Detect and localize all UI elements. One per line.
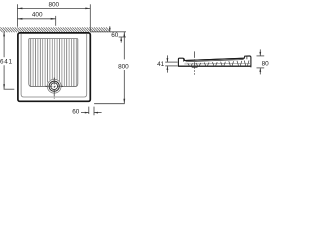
dim 800 top: extension line right — [89, 4, 91, 31]
dim 60 top right: down arrow above wall line — [109, 26, 111, 31]
wall hatching band above tray — [0, 27, 111, 32]
dim 800 top: extension line left — [16, 4, 18, 27]
drain centerline horizontal — [45, 85, 63, 87]
top surface line — [184, 58, 244, 60]
dim 641 left: dimension line lower part — [3, 65, 5, 89]
drain outer circle — [47, 79, 61, 93]
dim 60 bottom: left line with right arrow — [81, 112, 89, 114]
tray outer square (top view) — [18, 33, 90, 101]
dim 60 top right: lower extension line — [119, 36, 126, 38]
dim 41: lower extension line — [165, 65, 177, 67]
dim 60 bottom: right line with left arrow — [94, 112, 102, 114]
dim 800 right: dimension line upper part — [123, 32, 125, 60]
dim 800 top: dimension line — [17, 7, 90, 9]
body bottom line — [184, 63, 251, 65]
drain: white mask — [47, 79, 61, 93]
drain middle circle — [49, 81, 59, 91]
dim 60 top right: up arrow below inner line — [120, 37, 122, 42]
drain boss under profile — [192, 66, 198, 67]
dim 60 bottom: extension tick B — [93, 107, 95, 116]
svg-text:800: 800 — [118, 64, 129, 71]
dim 641 left: bottom extension tick — [4, 88, 15, 90]
wall face line continuation to the right — [90, 31, 126, 33]
left lip inner line — [183, 59, 185, 62]
dim 641 left: down arrow — [3, 84, 5, 89]
dim 80: upper extension tick — [257, 55, 265, 57]
right lip inner line — [246, 56, 248, 59]
dim 641 left: dimension line upper part — [3, 31, 5, 57]
inner surface line — [186, 60, 244, 62]
drain centerline vertical — [53, 78, 55, 99]
dim 41: down arrow — [166, 55, 168, 62]
dim 400: extension line right — [55, 16, 57, 26]
svg-text:60: 60 — [111, 32, 119, 39]
dim 800 top: right arrow — [85, 8, 90, 10]
dim 400: right arrow — [51, 18, 56, 20]
dim 400: left arrow — [17, 18, 22, 20]
feet between body bottom and ground — [188, 61, 249, 66]
drain axis centerline (side view) — [194, 51, 196, 74]
dim 400: dimension line — [17, 18, 55, 20]
right edge tail — [250, 66, 252, 67]
dim 60 bottom: extension tick A — [88, 107, 90, 114]
svg-text:400: 400 — [32, 12, 43, 19]
ground line — [178, 65, 251, 67]
dim 800 right: up arrow — [123, 32, 125, 37]
dim 800 right: down arrow — [123, 99, 125, 104]
svg-text:641: 641 — [0, 59, 12, 66]
svg-text:800: 800 — [48, 1, 59, 8]
dim 80: down arrow — [259, 49, 261, 55]
dim 41: up arrow — [166, 66, 168, 73]
svg-text:80: 80 — [262, 60, 270, 67]
dim 80: lower extension tick — [257, 67, 265, 69]
drain inner circle — [51, 83, 58, 90]
ribbed basin panel outline — [29, 39, 78, 87]
dim 641 left: up arrow — [3, 31, 5, 36]
anti-slip rib stripes — [31, 39, 77, 86]
dim 41: upper extension line — [165, 61, 177, 63]
svg-text:60: 60 — [72, 109, 80, 116]
dim 800 right: bottom extension line — [94, 103, 125, 105]
inner rim line (3 sides) — [21, 34, 87, 97]
dim 80: up arrow — [259, 68, 261, 74]
dim 800 right: dimension line lower part — [123, 70, 125, 104]
profile outline — [178, 56, 251, 66]
dim 800 top: left arrow — [17, 8, 22, 10]
svg-text:41: 41 — [157, 61, 165, 68]
